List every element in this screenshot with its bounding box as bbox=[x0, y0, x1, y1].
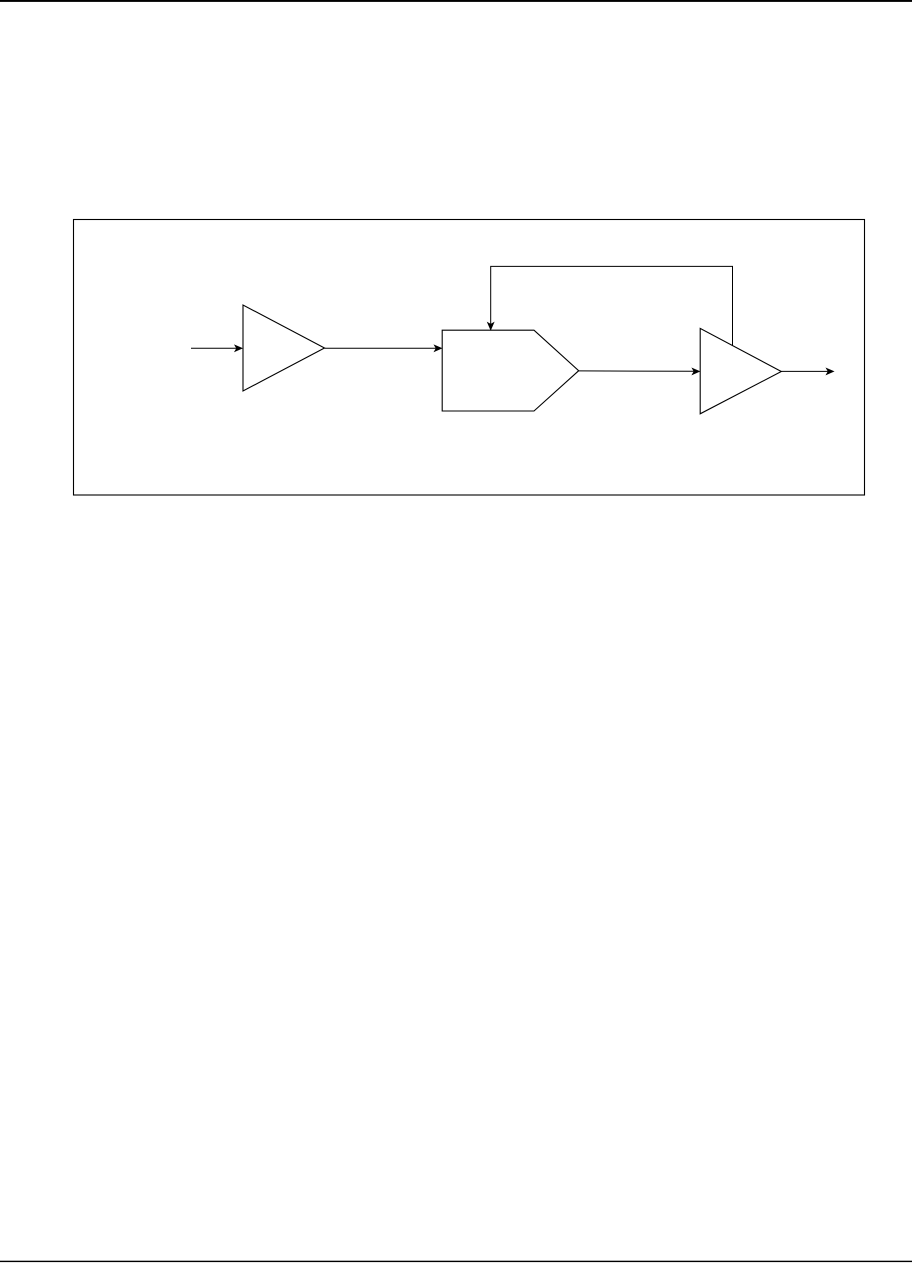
wire: input to amplifier A1 bbox=[191, 347, 237, 349]
amplifier A1 (triangle) bbox=[243, 305, 325, 391]
wire: A1 output to limiter block bbox=[325, 347, 437, 349]
limiter block U1 (pentagon) bbox=[442, 330, 579, 411]
page top rule bbox=[0, 0, 912, 2]
wire: limiter output to buffer A2 bbox=[579, 370, 694, 372]
arrowhead at limiter block input bbox=[434, 345, 442, 352]
buffer A2 (triangle) bbox=[700, 328, 781, 413]
arrowhead at buffer A2 input bbox=[692, 368, 700, 375]
page bottom rule bbox=[0, 1261, 912, 1262]
arrowhead down into limiter top bbox=[487, 322, 494, 330]
wire: output from buffer A2 bbox=[781, 370, 828, 372]
arrowhead at diagram output bbox=[826, 368, 834, 375]
arrowhead at amplifier A1 input bbox=[235, 345, 243, 352]
feedback wire from A2 top edge to limiter top bbox=[491, 266, 733, 345]
figure frame bbox=[74, 220, 865, 496]
